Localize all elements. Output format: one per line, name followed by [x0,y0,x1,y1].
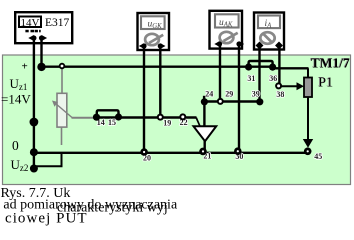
wire u_AK right down to node 30 [238,44,240,153]
ammeter i_A box [254,13,284,50]
u_GK terminal plugs [139,43,166,49]
left potentiometer bottom stub [61,127,63,145]
node 20 [140,148,148,156]
P1 top lead [307,68,309,78]
supply buttons [25,30,28,33]
node: supply junction [37,63,45,71]
node 45 [304,148,312,156]
svg-text:P1: P1 [318,76,333,91]
node 24 [201,98,208,105]
knob icon [220,32,234,43]
wire u_GK left down to node 20 [143,46,145,153]
svg-text:14V: 14V [21,17,40,29]
i_A terminal plugs [256,42,283,50]
wire i_A right down to node 38 [278,46,280,87]
svg-text:38: 38 [276,90,284,99]
voltmeter U_GK box [138,13,170,50]
cathode wire PUT to node 21 [203,140,205,153]
PUT triangle [194,126,217,141]
svg-text:31: 31 [247,74,255,83]
node number labels [97,74,323,162]
knob icon [145,34,159,45]
left potentiometer body [57,93,67,127]
node 30 [234,147,242,155]
node 38 wire to P1 arrow [279,85,298,87]
svg-text:TM1/7: TM1/7 [311,56,350,71]
P1 body [304,78,312,98]
anode wire 24 to PUT [203,102,205,128]
meter icon with slash [260,32,274,44]
node 36 [269,64,276,71]
wiper wire to node 14 [72,117,97,119]
node dot left rail mid [30,118,39,127]
P1 bottom lead [307,96,309,140]
node Uz2 terminal [30,165,38,173]
svg-text:=14V: =14V [1,92,31,107]
node 0 terminal [30,148,38,156]
jumper 14-15 [97,110,119,117]
node 21 [199,148,207,156]
power supply E317 box [15,12,72,43]
voltmeter U_AK box [210,11,243,49]
gate diagonal to PUT [196,118,200,127]
jumper 31-36 [249,61,273,67]
svg-text:E317: E317 [45,17,70,29]
node 15 [115,113,122,120]
wire supply right [40,38,42,67]
left potentiometer gray lead top [61,68,63,94]
svg-text:45: 45 [314,152,322,161]
Uz2 step wire [34,153,62,167]
top rail [42,65,274,67]
arrow into node 45 [303,139,313,148]
node 39 [256,98,263,105]
svg-text:24: 24 [205,90,213,99]
bottom rail [34,152,308,154]
svg-text:15: 15 [108,118,116,127]
wire 24-39 [204,100,259,102]
svg-text:0: 0 [12,138,19,153]
P1 wiper arrow [297,82,305,90]
svg-text:39: 39 [252,90,260,99]
wire u_GK right down to node 19 [159,46,161,118]
svg-text:19: 19 [163,118,171,127]
node 14 [93,114,100,121]
supply display 14V [19,17,41,28]
breadboard panel [3,55,351,185]
svg-text:29: 29 [225,90,233,99]
top rail right segment to P1 [273,67,309,69]
middle wire 14-22 [97,116,197,118]
wire i_A left down to node 39 [258,46,260,102]
node 22 [179,113,186,120]
node 19 [157,114,164,121]
svg-text:+: + [22,61,28,73]
svg-text:36: 36 [269,74,277,83]
node 38 [275,82,282,89]
svg-text:ciowej PUT: ciowej PUT [5,211,88,227]
wiper arrow line [55,103,72,118]
node 31 [245,63,252,70]
wire supply left to panel rail [33,38,35,169]
wire u_AK left down to node 29 [219,44,221,102]
node 29 [217,98,224,105]
u_AK terminal plugs [214,41,244,47]
node: pot top open [59,63,65,69]
supply terminal plugs [28,35,47,41]
